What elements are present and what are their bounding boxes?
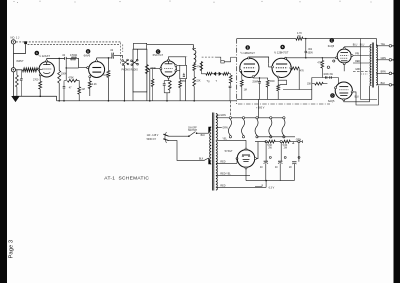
OT primary winding [370,45,371,86]
V3 pins right side [175,65,177,67]
OT secondary tap ground [376,84,389,86]
svg-text:G: G [392,84,394,87]
svg-text:BLK: BLK [355,97,360,99]
wire switch to transformer [197,132,209,134]
tube V6 envelope [337,49,351,63]
svg-text:.002: .002 [308,49,313,51]
svg-text:100K 1W: 100K 1W [323,74,333,76]
V1 pin grid left [38,68,40,70]
svg-text:+ 300 V: + 300 V [256,106,265,109]
svg-text:GRN: GRN [296,139,302,142]
tube V4 envelope [240,58,259,77]
OT dashed sec label [361,73,368,75]
B plus bottom rail [57,100,132,102]
heater bus bottom [257,136,295,138]
V1 pin top [46,60,48,62]
PT tap wires [216,114,220,116]
svg-text:GRN: GRN [220,114,226,117]
svg-text:1M: 1M [81,88,84,91]
tone pot arrows [214,72,216,76]
V1 pin cathode [39,74,41,76]
V4 pin cathode [252,76,254,78]
svg-text:Page 3: Page 3 [9,239,15,258]
OT core lines [371,43,373,88]
terminal circle 2 [275,141,280,143]
lower return wire [283,89,312,91]
svg-text:470K: 470K [68,77,74,80]
svg-text:25MF: 25MF [252,82,258,84]
resistor below coil [193,62,195,65]
svg-text:600V: 600V [308,52,314,54]
svg-text:4.7K: 4.7K [297,32,302,35]
svg-text:RED-YEL: RED-YEL [220,173,231,176]
V2 plate load resistor [107,58,109,71]
V7 pin right [351,91,353,93]
PT core lines [211,113,213,191]
left black border bar [0,0,7,283]
V7 label dot D [330,93,335,98]
svg-text:RED: RED [355,61,360,63]
svg-text:2700: 2700 [33,79,39,82]
V3 grid dashes [164,67,173,69]
terminal 4 [389,72,392,75]
tap node down from cap [65,60,67,68]
svg-text:C: C [331,39,333,42]
switch pole 1 blades [123,61,128,64]
B plus coupling cap .002 [305,39,307,51]
V8 pin left [236,158,238,160]
box legs to rail [132,92,134,101]
switch pole 2 blades [131,61,137,64]
V1 plate bar [43,64,50,66]
svg-text:D: D [332,94,334,97]
svg-text:C: C [392,45,394,48]
heater pin pair 2 [242,117,244,119]
V5 pin top [285,57,287,59]
svg-text:110 - 125 V: 110 - 125 V [147,135,159,137]
V8 internals [242,154,250,156]
svg-text:BLK: BLK [199,158,204,160]
svg-text:6SC7GT: 6SC7GT [153,53,164,57]
wire jack2 ground down to ground rail [13,72,15,96]
svg-text:YEL: YEL [222,137,227,140]
V5 cathode resistor [277,78,279,85]
V7 grid wire [337,78,339,85]
svg-text:RED: RED [220,184,225,187]
PT primary winding [210,127,212,164]
V1 plate wire up [46,58,48,60]
tube V1 envelope [39,62,54,77]
V3 plate wire [169,57,186,66]
OT enclosure box [361,39,377,100]
faint line GRN [353,70,370,72]
series input resistor fat zigzag [16,69,23,71]
svg-text:1M: 1M [244,90,247,92]
cap across jack [21,70,23,78]
V1 label dot A [35,51,40,56]
V8 cathode to B+ rail [256,142,258,159]
switch wire up [137,49,139,60]
coil top hook [192,48,195,50]
V2 pin grid [87,67,89,69]
wire V3 plate to coil [186,56,189,58]
V7 plate wire loop to OT [344,86,370,102]
switch pole 1 contacts [122,60,124,62]
B+ output stub [300,141,302,143]
feedback wire down [298,68,300,89]
OT secondary tap 4ohm [376,72,389,74]
heater pin pair 5 [283,117,285,119]
heater pin pair 1 [229,117,231,119]
lower resistor 15K [312,83,315,85]
svg-text:15K: 15K [307,84,312,86]
jack J1 phono input [11,40,15,44]
ground step connector [56,96,58,101]
V7 pin bottom [343,99,345,101]
filter cap 3 [298,143,300,162]
wire to V2 grid drop [76,58,78,67]
pot wiper arrow [148,69,150,70]
OT secondary winding [376,45,377,85]
outer wire loop [353,86,378,105]
rail right section [237,98,312,100]
V7 pin grid [335,87,337,89]
series grid resistor 4700 [71,57,77,60]
V3 pin grid [160,68,162,70]
svg-text:PHONO: PHONO [122,69,131,71]
svg-text:YEL: YEL [381,43,386,46]
tone network horizontal run [200,62,202,74]
svg-text:2.2K: 2.2K [92,83,97,86]
terminal G [389,84,392,87]
V3 label dot C [156,49,161,54]
wire shield to jack ground [14,44,26,53]
svg-text:½ 12BH7GT: ½ 12BH7GT [240,51,255,55]
V2 plate wire right [97,57,111,59]
stage shield line vertical [236,39,238,104]
OT secondary tap 8ohm [376,59,389,61]
svg-text:½ 12AX7: ½ 12AX7 [39,54,51,58]
terminal 8 [389,59,392,62]
dashed shield line mid [202,56,216,58]
tone resistor h1 [206,72,212,75]
screen line 2 [353,62,370,64]
V2 cathode resistor [89,78,91,81]
wire jack down [13,44,15,68]
filter resistor 2 [281,141,283,143]
tie circle upper [333,60,335,62]
lower resistor stack [193,71,195,77]
V4 grid resistor [241,71,243,80]
V3 pin cathode bottom [168,76,170,78]
V3 cathode bar [165,71,172,73]
wire plate node to V6 grid [306,57,337,59]
V4 internal dashes [244,63,255,65]
V8 pin top [245,148,247,150]
switch enclosure box [133,49,147,92]
svg-text:PRI: PRI [355,53,359,55]
svg-text:500K: 500K [151,68,157,70]
heater pin pair 3 [256,117,258,119]
svg-text:GRN: GRN [222,127,228,130]
V6 pin top [343,47,345,49]
svg-text:5Y3GT: 5Y3GT [225,150,233,153]
cathode cap 25MF [259,78,261,81]
plate node wire right [47,57,65,59]
heater pin pair 4 [270,117,272,119]
switch wires down [123,65,125,101]
svg-text:INPUT: INPUT [16,60,24,63]
svg-text:BLK: BLK [201,135,206,137]
shielded cable dashed pair [16,41,121,43]
AC plug prongs [164,135,168,137]
switch pole 2 contacts [131,60,133,62]
svg-text:RADIO: RADIO [131,68,138,71]
divider resistor to rail [77,81,79,87]
svg-text:+: + [270,157,271,159]
tube V2 envelope [89,62,105,78]
ground rail left section [14,95,57,97]
tone resistor horizontal 470K [67,79,77,82]
ground symbol main [12,96,19,101]
tube V8 envelope [237,150,255,168]
svg-text:6AV6: 6AV6 [84,54,91,58]
filter cap 2 [280,143,282,162]
terminal circle 3 [290,141,298,143]
svg-text:50/60 CY: 50/60 CY [147,139,157,141]
coupling cap C1 .02 [64,57,66,60]
AC wire bottom [169,141,209,161]
V4 cathode wire [253,77,259,79]
V8 pin bottom [245,167,247,169]
V6 plate wire to OT [344,46,370,48]
V5 pin cathode [277,76,279,78]
V6 pin grid [336,57,338,59]
V4 label dot B [245,45,250,50]
V2 plate bars [92,67,101,69]
corner wire bottom left [255,184,262,186]
grid resistor V6 branch [321,60,324,68]
V6 pin right [351,55,353,57]
on-off switch [188,135,190,137]
svg-text:NO. 1 J: NO. 1 J [11,36,20,40]
switch top label box [134,43,147,49]
V6 internals [340,52,348,54]
grid resistor R1 1meg [16,70,18,75]
V5 label dot B2 [280,45,285,50]
svg-text:22K: 22K [196,81,201,83]
bottom bus label mark [292,142,294,144]
divider resistor v [230,74,232,75]
V3 grid resistor [152,69,154,79]
svg-text:47K: 47K [300,70,305,72]
bias stub [265,181,267,188]
filter cap 1 [265,143,267,162]
svg-text:AT-1 SCHEMATIC: AT-1 SCHEMATIC [104,176,149,182]
rail junction dots [58,100,60,102]
terminal circle 1 [265,141,267,143]
V2 label dot B [86,49,91,54]
wire cap to switch [114,56,123,59]
tone cap bottom [229,85,232,87]
B+ wire into output transformer [376,39,378,47]
AC wire top to switch [169,135,189,137]
svg-text:100K: 100K [103,74,109,77]
V4 plate wire right [249,57,269,63]
dashed shield around cable end [119,43,121,64]
V1 plate load resistor [58,58,60,70]
svg-text:SWITCH: SWITCH [188,130,197,132]
tube V3 envelope [161,61,177,77]
svg-text:6AQ5: 6AQ5 [328,45,335,48]
V3 cathode network [168,78,170,80]
V3 pin top [168,59,170,61]
svg-text:6AQ5: 6AQ5 [328,100,335,103]
V1 cathode arc [43,73,50,74]
tie point circle [327,66,329,68]
svg-text:GRN: GRN [355,69,360,71]
svg-text:470K: 470K [317,63,323,65]
plate resistor V5 [290,67,292,69]
svg-text:100K: 100K [61,73,67,76]
tone branch vertical [65,68,67,81]
shield ground square node [24,41,27,44]
V1 grid dashes [42,68,51,70]
PT secondary winding lower [216,142,217,191]
V2 pin top [96,60,98,62]
svg-text:BLU: BLU [353,45,358,47]
screen resistor [179,79,181,81]
scan specks top edge [13,1,14,2]
V6 label dot C2 [330,38,335,43]
rail connector verticals [229,101,231,118]
V8 pin right [254,158,256,160]
screen pin ties [177,65,180,67]
svg-text:GRN: GRN [381,57,387,60]
V1 cathode resistor 2700 [39,81,42,89]
wire switchbox top to coil line [147,44,194,46]
svg-text:+: + [285,157,286,159]
V5 internal dashes [276,63,287,65]
V6 screen wire [353,55,370,57]
svg-text:6.3 V: 6.3 V [269,187,275,190]
PT secondary winding upper [216,114,217,141]
V5 pin grid [272,66,274,68]
heater bus top [228,117,284,119]
grid cap block [221,61,224,63]
cathode resistor [168,81,171,91]
V3 plate bar [165,63,173,65]
jack J2 input [11,68,15,72]
coupling cap C2 [110,57,111,59]
V6 pin bottom [343,63,345,65]
volume pot 500K [145,65,148,74]
svg-text:4700Ω: 4700Ω [70,54,77,57]
B+ dropping resistor 4.7K [296,37,303,40]
OT secondary tap C [376,45,389,47]
bias resistor 1500 [259,77,260,78]
tube V7 envelope [335,82,352,99]
cathode bypass cap [163,81,165,84]
wire bus down [311,78,313,100]
V7 internals [339,86,348,88]
V5 plate wire to coupling [286,57,306,59]
svg-text:BRN: BRN [381,70,386,73]
tone resistor h2 [221,73,223,75]
V4 pin grid [239,70,241,72]
svg-text:BLK: BLK [381,82,386,85]
terminal C [389,45,392,48]
svg-text:RED: RED [220,160,225,163]
svg-text:½ 12BH7GT: ½ 12BH7GT [274,51,289,55]
screen bypass cap [183,73,185,75]
beam plate rectangle [180,65,187,78]
B+ rail PS [255,141,266,143]
rail dash-dot section [238,103,330,105]
V6 cathode wire down [343,65,345,72]
wire cap to resistor [66,57,70,59]
V5 cathode loop box [278,80,286,85]
V1 cathode wire [39,76,41,81]
V2 pin cathode [89,76,91,78]
V4 pin top [248,57,250,59]
tone cap to rail [64,80,66,82]
wiper wire down to rail [149,69,151,101]
wire tone run to V4 grid [229,73,231,75]
tube V5 envelope [272,58,291,77]
PS ground rail [246,180,294,182]
B+ top line [237,38,296,40]
filter resistor 1 [266,141,268,143]
caps line y77.5 [312,77,339,79]
plate choke coil [194,47,196,49]
plate drop wire [185,79,187,101]
right black border bar [394,0,400,283]
svg-text:1500: 1500 [269,81,275,83]
